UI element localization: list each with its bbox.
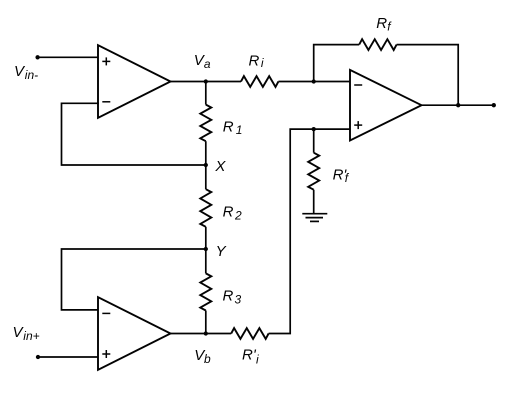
resistor R'i bbox=[231, 328, 268, 339]
label R'f bbox=[333, 167, 350, 185]
node U3 inverting input junction bbox=[312, 79, 316, 83]
svg-text:3: 3 bbox=[235, 292, 242, 306]
svg-text:a: a bbox=[204, 57, 211, 71]
node Y bbox=[204, 247, 208, 251]
label R2 bbox=[223, 203, 242, 222]
svg-text:R: R bbox=[376, 15, 387, 32]
resistor R1 bbox=[205, 82, 207, 105]
U1 minus sign bbox=[102, 101, 110, 103]
node Vb bbox=[204, 331, 208, 335]
resistor Ri bbox=[241, 76, 278, 87]
svg-text:2: 2 bbox=[234, 209, 242, 223]
svg-text:in-: in- bbox=[25, 68, 38, 82]
resistor Rf bbox=[359, 39, 396, 50]
svg-text:1: 1 bbox=[236, 123, 243, 137]
svg-text:R': R' bbox=[242, 347, 257, 364]
wire feedback Rf right leg to output bbox=[397, 45, 459, 106]
node Va bbox=[204, 79, 208, 83]
node output terminal bbox=[492, 103, 496, 107]
label Ri bbox=[249, 53, 264, 71]
node output junction bbox=[456, 103, 460, 107]
svg-text:R: R bbox=[223, 119, 234, 136]
wire Vin+ to U2 + input bbox=[38, 356, 99, 358]
U2 minus sign bbox=[102, 312, 110, 314]
svg-text:X: X bbox=[214, 158, 226, 175]
resistor R3 bbox=[205, 249, 207, 273]
wire U1 output to node Va bbox=[171, 81, 242, 83]
op-amp U3 (right) bbox=[350, 70, 422, 141]
resistor R2 bbox=[205, 165, 207, 189]
label Va bbox=[194, 52, 211, 71]
node U3 noninverting input junction bbox=[312, 127, 316, 131]
U1 plus sign bbox=[102, 57, 110, 65]
U3 minus sign bbox=[354, 84, 362, 86]
wire Ri to U1... U3 - input bbox=[278, 81, 351, 83]
wire U3 output bbox=[422, 104, 494, 106]
label R3 bbox=[223, 287, 242, 306]
U2 plus sign bbox=[102, 350, 110, 358]
resistor R'f bbox=[313, 129, 315, 153]
wire U2 output to node Vb bbox=[171, 333, 232, 335]
svg-text:i: i bbox=[256, 353, 259, 367]
label R1 bbox=[223, 119, 243, 138]
svg-text:R: R bbox=[249, 53, 260, 70]
wire feedback Rf left leg bbox=[314, 45, 360, 82]
label Rf bbox=[376, 15, 392, 34]
svg-text:f: f bbox=[387, 20, 392, 34]
op-amp U2 (bottom-left) bbox=[98, 297, 171, 370]
label Vin- bbox=[14, 63, 38, 82]
label Vin+ bbox=[13, 324, 40, 343]
node Vin+ input terminal bbox=[36, 355, 40, 359]
U3 plus sign bbox=[354, 121, 362, 129]
label R'i bbox=[242, 347, 259, 367]
svg-text:f: f bbox=[345, 171, 350, 185]
svg-text:i: i bbox=[261, 56, 264, 70]
svg-text:in+: in+ bbox=[23, 329, 39, 343]
wire R'i to U3 + input bbox=[269, 129, 351, 333]
wire U1 feedback: - input to node X bbox=[62, 103, 206, 165]
svg-text:R: R bbox=[223, 287, 234, 304]
label Vb bbox=[194, 347, 211, 366]
svg-text:Y: Y bbox=[216, 243, 227, 260]
ground bbox=[302, 214, 327, 222]
svg-text:R: R bbox=[223, 203, 234, 220]
wire U2 feedback: node Y to - input bbox=[62, 249, 206, 310]
op-amp U1 (top-left) bbox=[98, 45, 171, 118]
node X bbox=[204, 163, 208, 167]
svg-text:b: b bbox=[204, 352, 211, 366]
node Vin- input terminal bbox=[35, 55, 39, 59]
wire Vin- to U1 + input bbox=[38, 56, 99, 58]
